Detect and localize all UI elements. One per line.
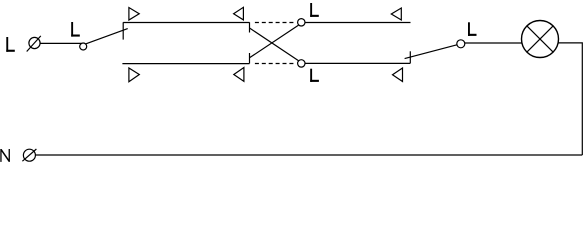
cross switch contact tick (bottom) <box>249 53 251 64</box>
cross switch dashed straight-through position (bottom) <box>255 63 294 65</box>
cross switch blade top-left to bottom-right <box>250 28 299 61</box>
switch S1 pivot circle <box>80 43 87 50</box>
traveller wire 1 (top) from S1 to cross switch <box>123 22 249 24</box>
wire: neutral terminal to lamp (bottom run) <box>36 154 583 156</box>
traveller wire 2 (bottom) from S1 to cross switch <box>122 63 249 65</box>
terminal N (neutral, circle with slash) <box>23 149 35 161</box>
switch S3 contact tick <box>409 51 411 63</box>
label L at switch S3 pivot <box>468 22 477 36</box>
arrow left-pointing into cross switch (top) <box>234 7 244 20</box>
cross switch dashed straight-through position (top) <box>255 22 294 24</box>
switch S3 pivot circle <box>457 40 465 48</box>
lamp E1 circle <box>522 21 559 58</box>
traveller wire 4 (bottom) from cross switch to S3 <box>305 62 410 64</box>
label L at supply terminal <box>6 37 15 52</box>
label L at switch S1 pivot <box>71 22 80 37</box>
arrow left-pointing into cross switch (bottom) <box>234 68 244 82</box>
arrow left-pointing before S3 (top) <box>391 8 401 20</box>
arrow right-pointing below traveller 2 <box>129 68 139 82</box>
label L at cross switch bottom output <box>310 69 319 82</box>
terminal L (supply phase, circle with slash) <box>29 37 40 48</box>
arrow right-pointing above traveller 1 <box>129 8 139 21</box>
cross switch output terminal circle (bottom) <box>298 60 305 67</box>
wire: supply terminal L to switch S1 pivot <box>40 42 81 44</box>
label N at neutral terminal <box>0 149 10 162</box>
lamp E1 cross diagonal 1 <box>527 26 553 52</box>
switch S3 blade <box>405 45 457 59</box>
traveller wire 3 (top) from cross switch to S3 <box>305 22 411 24</box>
lamp E1 cross diagonal 2 <box>527 26 553 52</box>
arrow left-pointing before S3 (bottom) <box>393 68 403 82</box>
cross switch output terminal circle (top) <box>298 19 305 26</box>
cross switch contact tick (top) <box>249 22 251 32</box>
cross switch blade bottom-left to top-right <box>250 25 299 58</box>
wire: lamp to right edge and down <box>558 43 582 155</box>
switch S1 blade <box>86 29 128 44</box>
switch S1 contact tick <box>122 22 124 39</box>
label L at cross switch top output <box>310 3 319 17</box>
wire: S3 to lamp <box>465 42 522 44</box>
